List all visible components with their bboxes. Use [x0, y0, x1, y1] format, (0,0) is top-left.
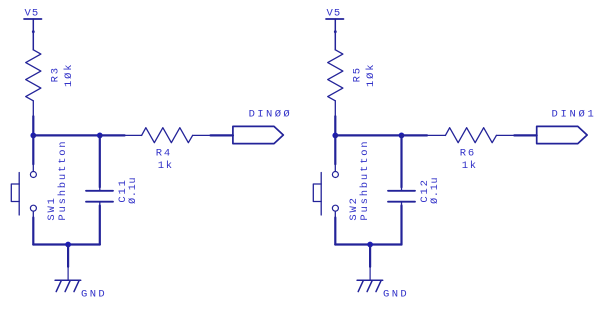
V5 pin wire — [32, 19, 34, 50]
svg-text:GND: GND — [81, 289, 107, 301]
svg-text:Ø.1u: Ø.1u — [429, 177, 441, 204]
bottom rail junction dot (right) — [367, 242, 373, 248]
wire SW1 to bottom rail — [32, 218, 34, 245]
resistor R3 bottom lead — [32, 101, 34, 116]
svg-text:DINØØ: DINØØ — [249, 109, 293, 121]
svg-text:DINØ1: DINØ1 — [552, 109, 597, 121]
svg-text:Ø.1u: Ø.1u — [127, 177, 139, 204]
svg-text:R4: R4 — [156, 147, 172, 159]
svg-text:R5: R5 — [351, 66, 363, 82]
V5 pin wire (right) — [334, 19, 336, 50]
ground bar — [55, 279, 81, 281]
wire C11 to bottom rail — [99, 206, 101, 245]
wire node C down to SW2 — [334, 135, 336, 164]
GND stem wire (right) — [369, 245, 371, 267]
node B junction dot — [97, 133, 103, 139]
wire node A to node B — [33, 134, 100, 136]
svg-text:R3: R3 — [49, 66, 61, 82]
ground hatch 3 (right) — [376, 280, 381, 291]
node A junction dot — [30, 133, 36, 139]
svg-text:GND: GND — [383, 289, 409, 301]
wire node A down to SW1 — [32, 135, 34, 164]
svg-text:V5: V5 — [25, 7, 40, 19]
svg-text:1Øk: 1Øk — [365, 63, 377, 87]
C11 top pin stub — [99, 187, 101, 190]
svg-text:C11: C11 — [117, 178, 129, 202]
wire R5 to node C — [334, 116, 336, 135]
SW2 top contact circle — [332, 172, 338, 178]
power symbol V5 (left) — [24, 18, 42, 20]
wire R4 to DIN00 — [211, 134, 233, 136]
ground hatch 2 — [65, 280, 70, 291]
ground hatch 1 — [56, 280, 61, 291]
ground bar (right) — [357, 279, 383, 281]
wire node B down to C11 — [99, 135, 101, 187]
resistor R3 zigzag — [26, 50, 41, 101]
bottom rail junction dot — [65, 242, 71, 248]
wire node D to R6 — [402, 134, 428, 136]
svg-text:V5: V5 — [327, 7, 342, 19]
GND symbol pin (right) — [369, 267, 371, 281]
svg-text:1k: 1k — [462, 160, 478, 172]
SW2 bottom pin stub — [334, 212, 336, 218]
C12 bottom pin stub — [401, 203, 403, 206]
C12 top pin stub — [401, 187, 403, 190]
svg-text:R6: R6 — [460, 147, 476, 159]
R6 left lead — [427, 134, 445, 136]
C11 bottom pin stub — [99, 203, 101, 206]
resistor R4 zigzag — [142, 128, 193, 143]
resistor R5 bottom lead — [334, 101, 336, 116]
wire C12 to bottom rail — [400, 206, 402, 245]
SW2 top pin stub — [334, 164, 336, 171]
V5 pin end dot — [32, 30, 35, 33]
connector DIN00 flag — [233, 126, 283, 143]
R4 left lead — [125, 134, 142, 136]
ground hatch 1 (right) — [358, 280, 363, 291]
SW1 actuator cap rectangle — [11, 184, 19, 202]
C11 top plate — [86, 190, 113, 192]
SW2 actuator cap rectangle — [313, 184, 321, 202]
SW1 top pin stub — [32, 164, 34, 171]
SW1 top contact circle — [30, 172, 36, 178]
wire node C to node D — [335, 134, 401, 136]
GND symbol pin — [67, 267, 69, 281]
SW1 bottom pin stub — [32, 212, 34, 218]
power symbol V5 (right) — [326, 18, 344, 20]
wire R3 to node A — [32, 116, 34, 135]
svg-text:Pushbutton: Pushbutton — [57, 140, 69, 221]
wire R6 to DIN01 — [514, 134, 536, 136]
svg-text:1k: 1k — [158, 160, 174, 172]
bottom rail wire (right) — [335, 243, 401, 245]
svg-text:1Øk: 1Øk — [63, 63, 75, 87]
svg-text:C12: C12 — [419, 178, 431, 202]
ground hatch 3 — [74, 280, 79, 291]
V5 pin end dot (right) — [334, 30, 337, 33]
GND stem wire — [67, 245, 69, 267]
R4 right lead — [193, 134, 211, 136]
resistor R5 zigzag — [328, 50, 343, 101]
C11 bottom plate — [86, 201, 113, 203]
resistor R6 zigzag — [445, 128, 496, 143]
SW1 bottom contact circle — [30, 205, 36, 211]
node C junction dot — [332, 133, 338, 139]
svg-text:Pushbutton: Pushbutton — [359, 140, 371, 221]
C12 top plate — [388, 190, 415, 192]
SW2 actuator bar — [320, 173, 322, 216]
node D junction dot — [399, 133, 405, 139]
R6 right lead — [496, 134, 514, 136]
C12 bottom plate — [388, 201, 415, 203]
SW1 actuator bar — [18, 173, 20, 216]
wire node B to R4 — [100, 134, 125, 136]
ground hatch 2 (right) — [367, 280, 372, 291]
bottom rail wire — [33, 243, 100, 245]
SW2 bottom contact circle — [332, 205, 338, 211]
wire SW2 to bottom rail — [334, 218, 336, 245]
connector DIN01 flag — [537, 126, 587, 143]
wire node D down to C12 — [400, 135, 402, 187]
